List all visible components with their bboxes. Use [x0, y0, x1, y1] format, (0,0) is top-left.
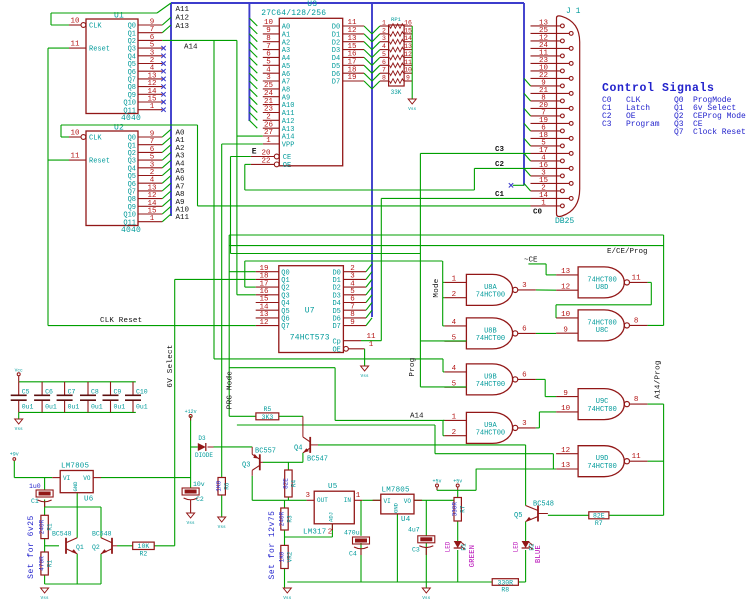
svg-text:12: 12: [561, 283, 570, 291]
svg-text:18: 18: [347, 66, 356, 74]
svg-text:Vss: Vss: [187, 520, 195, 526]
svg-text:11: 11: [632, 274, 642, 282]
svg-text:74HCT573: 74HCT573: [290, 334, 330, 343]
svg-text:U8A: U8A: [484, 284, 497, 292]
svg-text:BC548: BC548: [52, 531, 72, 538]
svg-text:A13: A13: [282, 126, 295, 134]
svg-text:C0: C0: [533, 209, 543, 217]
svg-text:74HCT00: 74HCT00: [476, 335, 505, 343]
svg-text:Q4: Q4: [294, 445, 302, 453]
svg-text:CLK Reset: CLK Reset: [100, 317, 142, 325]
svg-text:13: 13: [347, 35, 357, 43]
svg-text:R6: R6: [224, 482, 231, 490]
svg-text:2: 2: [382, 27, 386, 34]
svg-text:74HCT00: 74HCT00: [587, 319, 616, 327]
svg-text:U7: U7: [305, 307, 315, 316]
svg-text:R7: R7: [460, 505, 467, 513]
svg-text:DIODE: DIODE: [195, 452, 213, 459]
svg-text:Vss: Vss: [422, 595, 430, 600]
svg-text:C8: C8: [91, 389, 99, 396]
svg-text:BLUE: BLUE: [535, 545, 543, 563]
svg-text:1: 1: [150, 103, 155, 111]
svg-text:15: 15: [347, 43, 357, 51]
svg-text:6: 6: [266, 51, 271, 59]
svg-text:4u7: 4u7: [408, 527, 420, 534]
svg-text:R3: R3: [287, 515, 294, 523]
svg-text:CLK: CLK: [89, 135, 102, 143]
svg-text:3: 3: [522, 420, 527, 428]
svg-text:14: 14: [404, 35, 412, 42]
svg-text:10: 10: [264, 19, 274, 27]
svg-text:Clock Reset: Clock Reset: [693, 128, 746, 137]
svg-text:D3: D3: [332, 47, 340, 55]
svg-text:VR2: VR2: [287, 551, 294, 562]
svg-text:Q1: Q1: [76, 544, 84, 551]
svg-text:74HCT00: 74HCT00: [476, 292, 505, 300]
svg-text:VO: VO: [83, 475, 91, 482]
svg-text:5: 5: [382, 51, 386, 58]
svg-text:A4: A4: [282, 55, 290, 63]
svg-text:13: 13: [561, 462, 571, 470]
svg-text:R2: R2: [139, 551, 147, 558]
svg-text:1: 1: [452, 276, 457, 284]
svg-text:6: 6: [522, 371, 527, 379]
svg-text:4: 4: [452, 319, 457, 327]
svg-text:LM317: LM317: [303, 529, 327, 537]
svg-text:11: 11: [70, 41, 80, 49]
svg-text:D7: D7: [332, 79, 340, 87]
svg-text:8: 8: [382, 75, 386, 82]
svg-text:4: 4: [452, 365, 457, 373]
svg-text:A10: A10: [282, 102, 295, 110]
svg-text:10v: 10v: [193, 481, 205, 488]
svg-text:U3: U3: [307, 0, 317, 9]
svg-text:C1: C1: [495, 191, 505, 199]
svg-text:8: 8: [634, 317, 639, 325]
svg-text:17: 17: [347, 59, 356, 67]
svg-text:9: 9: [563, 326, 568, 334]
svg-text:3: 3: [522, 282, 527, 290]
svg-text:12: 12: [561, 447, 570, 455]
svg-text:C9: C9: [114, 389, 122, 396]
svg-text:1K0: 1K0: [216, 480, 223, 491]
svg-text:OUT: OUT: [317, 497, 328, 504]
svg-text:74HCT00: 74HCT00: [476, 430, 505, 438]
svg-text:0u1: 0u1: [136, 404, 148, 411]
svg-text:0u1: 0u1: [22, 404, 34, 411]
svg-text:13: 13: [404, 43, 412, 50]
svg-text:6: 6: [522, 325, 527, 333]
svg-text:C6: C6: [45, 389, 53, 396]
svg-text:VI: VI: [63, 475, 70, 482]
svg-text:Reset: Reset: [89, 46, 110, 54]
svg-text:Q7: Q7: [281, 323, 289, 331]
svg-text:A8: A8: [282, 87, 290, 95]
svg-text:A11: A11: [176, 214, 190, 222]
svg-text:10: 10: [70, 130, 80, 138]
svg-text:OE: OE: [332, 346, 340, 354]
svg-text:R1: R1: [47, 523, 54, 531]
svg-text:1: 1: [452, 414, 457, 422]
svg-text:U4: U4: [401, 516, 411, 524]
svg-text:27C64/128/256: 27C64/128/256: [261, 9, 326, 18]
svg-text:A6: A6: [282, 71, 290, 79]
svg-text:CLK: CLK: [89, 23, 102, 31]
svg-text:16: 16: [347, 51, 357, 59]
svg-text:22: 22: [261, 158, 270, 166]
svg-text:C1: C1: [31, 498, 39, 505]
svg-text:9: 9: [406, 75, 410, 82]
svg-text:D1: D1: [332, 32, 340, 40]
svg-text:GND: GND: [392, 502, 399, 513]
svg-text:C3: C3: [412, 547, 420, 554]
svg-text:Vss: Vss: [361, 373, 369, 379]
svg-text:DB25: DB25: [555, 217, 574, 226]
svg-text:U9A: U9A: [484, 422, 497, 430]
svg-text:1: 1: [382, 20, 386, 27]
svg-text:11: 11: [366, 333, 376, 341]
svg-text:Control Signals: Control Signals: [602, 82, 715, 95]
svg-text:Q11: Q11: [123, 107, 136, 115]
svg-text:7: 7: [382, 67, 386, 74]
svg-text:A2: A2: [282, 39, 290, 47]
svg-text:0u1: 0u1: [114, 404, 126, 411]
svg-text:6: 6: [382, 59, 386, 66]
svg-text:U9C: U9C: [596, 398, 609, 406]
svg-text:21: 21: [264, 98, 274, 106]
svg-text:23: 23: [264, 106, 274, 114]
svg-text:GND: GND: [72, 481, 79, 492]
svg-text:82E: 82E: [593, 513, 605, 520]
svg-text:12: 12: [404, 51, 412, 58]
svg-text:3: 3: [266, 74, 271, 82]
svg-text:13: 13: [561, 268, 571, 276]
svg-text:10: 10: [561, 311, 571, 319]
svg-text:U9D: U9D: [596, 455, 609, 463]
svg-text:12: 12: [259, 319, 268, 327]
svg-text:+5v: +5v: [432, 478, 441, 484]
svg-text:11: 11: [632, 453, 642, 461]
svg-text:~CE: ~CE: [524, 257, 538, 265]
svg-text:A12: A12: [282, 118, 295, 126]
svg-text:4040: 4040: [121, 114, 141, 123]
svg-text:A14: A14: [282, 134, 295, 142]
svg-text:74HCT00: 74HCT00: [587, 463, 616, 471]
svg-text:LM7805: LM7805: [382, 487, 411, 495]
svg-text:A12: A12: [176, 14, 190, 22]
svg-text:A11: A11: [176, 6, 190, 14]
svg-text:Reset: Reset: [89, 158, 110, 166]
svg-text:240R: 240R: [279, 511, 286, 526]
svg-text:Vss: Vss: [408, 106, 416, 112]
svg-text:240R: 240R: [39, 519, 46, 534]
svg-text:16: 16: [404, 20, 412, 27]
svg-text:D5: D5: [332, 63, 340, 71]
svg-text:D7: D7: [332, 323, 340, 331]
svg-text:330R: 330R: [452, 502, 459, 517]
svg-text:D0: D0: [332, 24, 340, 32]
svg-text:1: 1: [541, 199, 546, 207]
svg-text:IN: IN: [344, 497, 352, 504]
svg-text:R4: R4: [290, 480, 297, 488]
svg-text:LM7805: LM7805: [61, 463, 90, 471]
svg-text:12: 12: [347, 27, 356, 35]
svg-text:1: 1: [150, 215, 155, 223]
svg-text:CE: CE: [283, 154, 291, 162]
svg-text:OE: OE: [283, 162, 291, 170]
svg-text:Q11: Q11: [123, 219, 136, 227]
svg-text:8: 8: [266, 35, 271, 43]
svg-text:Vcc: Vcc: [15, 368, 23, 374]
svg-text:1: 1: [266, 137, 271, 145]
svg-text:A14: A14: [184, 44, 198, 52]
svg-text:VI: VI: [384, 498, 391, 505]
svg-text:U8B: U8B: [484, 327, 497, 335]
svg-text:RP1: RP1: [391, 16, 402, 23]
svg-text:D4: D4: [332, 55, 340, 63]
svg-text:Q7: Q7: [674, 128, 684, 137]
svg-text:74HCT00: 74HCT00: [587, 276, 616, 284]
svg-text:U5: U5: [328, 483, 338, 491]
svg-text:U8C: U8C: [596, 327, 609, 335]
svg-text:ADJ: ADJ: [327, 512, 334, 522]
svg-text:8: 8: [634, 396, 639, 404]
svg-text:A14: A14: [410, 413, 424, 421]
svg-text:Prog: Prog: [409, 357, 417, 376]
svg-text:11: 11: [70, 153, 80, 161]
svg-text:5: 5: [266, 59, 271, 67]
svg-text:9: 9: [563, 390, 568, 398]
svg-text:3: 3: [382, 35, 386, 42]
svg-text:Vss: Vss: [218, 524, 226, 530]
svg-text:0u1: 0u1: [45, 404, 57, 411]
svg-text:J 1: J 1: [566, 7, 581, 16]
svg-text:Vss: Vss: [283, 595, 291, 600]
svg-text:10: 10: [404, 67, 412, 74]
svg-text:1K0: 1K0: [279, 551, 286, 562]
svg-text:A3: A3: [282, 47, 290, 55]
svg-text:1: 1: [356, 492, 361, 500]
svg-text:+9v: +9v: [10, 452, 19, 458]
svg-text:BC548: BC548: [533, 501, 554, 509]
svg-text:2: 2: [266, 114, 271, 122]
svg-text:3: 3: [306, 492, 311, 500]
svg-text:10K: 10K: [138, 543, 150, 550]
svg-text:9: 9: [266, 27, 271, 35]
svg-text:R7: R7: [595, 520, 603, 527]
svg-text:BC548: BC548: [92, 531, 112, 538]
svg-text:LED: LED: [513, 541, 520, 552]
svg-text:U6: U6: [84, 496, 94, 504]
svg-text:+5v: +5v: [453, 478, 462, 484]
svg-text:74HCT00: 74HCT00: [476, 381, 505, 389]
svg-text:11: 11: [404, 59, 412, 66]
svg-text:4: 4: [382, 43, 386, 50]
svg-text:27: 27: [264, 129, 273, 137]
svg-text:74HCT00: 74HCT00: [587, 406, 616, 414]
svg-text:4: 4: [266, 66, 271, 74]
svg-text:PRG Mode: PRG Mode: [227, 371, 235, 409]
svg-text:Vss: Vss: [15, 426, 23, 432]
svg-text:Set for 12v75: Set for 12v75: [268, 511, 277, 580]
svg-text:D3: D3: [198, 435, 206, 442]
svg-text:33K: 33K: [391, 89, 402, 96]
svg-text:R1: R1: [47, 560, 54, 568]
svg-text:C2: C2: [196, 496, 204, 503]
svg-text:C3: C3: [602, 120, 612, 129]
svg-text:7: 7: [266, 43, 271, 51]
svg-text:C4: C4: [349, 551, 357, 558]
svg-text:15: 15: [404, 27, 412, 34]
svg-text:U8D: U8D: [596, 284, 609, 292]
svg-text:E/CE/Prog: E/CE/Prog: [607, 248, 648, 256]
svg-text:20: 20: [261, 150, 271, 158]
svg-text:A14/Prog: A14/Prog: [655, 360, 663, 398]
svg-text:A13: A13: [176, 23, 190, 31]
svg-text:Vss: Vss: [41, 595, 49, 600]
svg-text:9: 9: [350, 319, 355, 327]
svg-text:A1: A1: [282, 32, 290, 40]
svg-text:C7: C7: [68, 389, 76, 396]
svg-text:Cp: Cp: [332, 338, 340, 346]
svg-text:Program: Program: [626, 120, 660, 129]
svg-text:2: 2: [452, 429, 457, 437]
svg-text:82E: 82E: [282, 478, 289, 489]
svg-text:GREEN: GREEN: [469, 545, 477, 568]
svg-text:1u0: 1u0: [29, 483, 41, 490]
svg-text:+12v: +12v: [185, 409, 197, 415]
svg-text:D2: D2: [332, 39, 340, 47]
svg-text:Q3: Q3: [242, 462, 250, 470]
svg-text:6V Select: 6V Select: [167, 344, 175, 387]
svg-text:C3: C3: [495, 146, 505, 154]
svg-text:26: 26: [264, 121, 274, 129]
svg-text:A9: A9: [282, 94, 290, 102]
svg-text:1: 1: [369, 341, 374, 349]
svg-text:2: 2: [328, 529, 333, 537]
svg-text:11: 11: [347, 19, 357, 27]
svg-text:A7: A7: [282, 79, 290, 87]
svg-text:24: 24: [264, 90, 274, 98]
svg-text:4040: 4040: [121, 226, 141, 235]
svg-text:LED: LED: [445, 541, 452, 552]
svg-text:0u1: 0u1: [91, 404, 103, 411]
svg-text:Q2: Q2: [92, 544, 100, 551]
svg-text:BC547: BC547: [307, 456, 328, 464]
svg-text:R5: R5: [263, 406, 271, 413]
svg-text:25: 25: [264, 82, 274, 90]
svg-text:VO: VO: [404, 498, 412, 505]
svg-text:19: 19: [347, 74, 356, 82]
svg-text:C10: C10: [136, 389, 148, 396]
svg-text:D6: D6: [332, 71, 340, 79]
svg-text:470u: 470u: [344, 530, 360, 537]
svg-text:10: 10: [561, 405, 571, 413]
svg-text:2: 2: [452, 291, 457, 299]
svg-text:VPP: VPP: [282, 142, 295, 150]
svg-text:A11: A11: [282, 110, 295, 118]
svg-text:U9B: U9B: [484, 373, 497, 381]
svg-text:10: 10: [70, 18, 80, 26]
svg-text:470R: 470R: [39, 556, 46, 571]
svg-text:BC557: BC557: [255, 448, 276, 456]
svg-text:R8: R8: [501, 586, 509, 593]
svg-text:C2: C2: [495, 161, 505, 169]
svg-text:A0: A0: [282, 24, 290, 32]
svg-text:A5: A5: [282, 63, 290, 71]
svg-text:Q5: Q5: [514, 512, 522, 520]
svg-text:C5: C5: [22, 389, 30, 396]
svg-text:Set for 6v25: Set for 6v25: [27, 515, 36, 579]
svg-text:E: E: [252, 147, 257, 156]
svg-text:Mode: Mode: [433, 278, 441, 297]
svg-text:D1: D1: [461, 543, 468, 551]
svg-text:3K3: 3K3: [262, 414, 274, 421]
svg-text:0u1: 0u1: [68, 404, 80, 411]
